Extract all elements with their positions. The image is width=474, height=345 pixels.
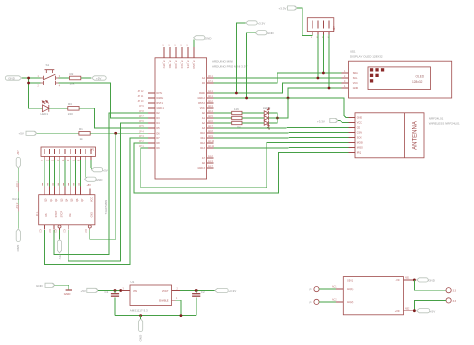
svg-text:VCC: VCC bbox=[353, 82, 358, 85]
resistor R4 bbox=[232, 107, 242, 115]
svg-text:JP2.1: JP2.1 bbox=[17, 181, 19, 188]
wire U1 ENABLE down to ground rail bbox=[176, 300, 181, 315]
svg-text:R1: R1 bbox=[79, 127, 83, 131]
arduino top pins bbox=[162, 45, 195, 69]
svg-text:A1.3: A1.3 bbox=[208, 160, 213, 163]
svg-text:GND.1: GND.1 bbox=[157, 107, 165, 110]
svg-text:JP 10: JP 10 bbox=[138, 101, 145, 103]
svg-text:A4.1: A4.1 bbox=[208, 90, 213, 93]
wire arduino D13 to nrf MISO bbox=[214, 147, 349, 150]
svg-text:A7.1: A7.1 bbox=[208, 80, 213, 83]
svg-text:GND: GND bbox=[96, 178, 104, 182]
wire ground rail bbox=[115, 315, 196, 317]
svg-text:WIRELESS NRF24L01: WIRELESS NRF24L01 bbox=[429, 121, 460, 125]
junction at (28.6,83) bbox=[27, 82, 30, 85]
IC1 74HC595 shift register bbox=[36, 183, 108, 233]
svg-text:RAW: RAW bbox=[199, 92, 205, 95]
wire arduino A4 to oled SDA bbox=[214, 73, 342, 83]
junction at (28.6,78) bbox=[27, 77, 30, 80]
svg-text:JP 3: JP 3 bbox=[139, 136, 144, 138]
svg-text:R6: R6 bbox=[237, 125, 241, 129]
svg-text:+5V: +5V bbox=[81, 289, 86, 293]
junction -VD bbox=[413, 279, 416, 282]
svg-text:A6.11: A6.11 bbox=[208, 145, 215, 148]
arduino left pin stubs bbox=[138, 91, 165, 150]
svg-text:DS: DS bbox=[45, 213, 48, 217]
svg-text:220: 220 bbox=[68, 112, 73, 116]
wire connector pin2 to SCL row bbox=[317, 35, 319, 78]
svg-text:U$3: U$3 bbox=[332, 26, 335, 31]
wire connector pin9 to GND flag bbox=[86, 160, 87, 179]
svg-text:IC 1: IC 1 bbox=[36, 211, 39, 216]
wire R3 to arduino D5 bbox=[79, 108, 148, 128]
svg-text:RST.2: RST.2 bbox=[198, 102, 205, 105]
wire IC1 OE to arduino bbox=[68, 123, 148, 261]
wire arduino A5 to oled SCL bbox=[214, 77, 342, 79]
svg-text:GND.3: GND.3 bbox=[197, 167, 205, 170]
wire U1 VOUT to +3.3V bbox=[180, 290, 215, 292]
svg-text:S1: S1 bbox=[46, 63, 50, 67]
pad P4 output bbox=[446, 298, 457, 303]
svg-text:P_GND: P_GND bbox=[192, 61, 195, 70]
svg-text:A6.10: A6.10 bbox=[208, 140, 215, 143]
junction led cathode rail bbox=[276, 117, 279, 120]
svg-text:N$1: N$1 bbox=[405, 278, 410, 280]
svg-text:JP 11: JP 11 bbox=[138, 96, 144, 98]
svg-text:74HC595N: 74HC595N bbox=[104, 200, 108, 215]
supply flag GND with ground bar (bottom-left) bbox=[36, 283, 72, 296]
LED LED1 bbox=[41, 101, 49, 117]
pin +VD stub bbox=[404, 308, 415, 310]
supply flag +5V (top-left) bbox=[92, 76, 107, 81]
svg-text:+5V: +5V bbox=[58, 254, 62, 259]
wire P2 to AC(2) bbox=[319, 299, 343, 302]
wire +5V branch down to IC1 pin bbox=[90, 133, 116, 239]
supply flag GND (below connector) bbox=[85, 177, 104, 182]
junction gnd flag at rail bbox=[139, 314, 142, 317]
supply flag +3.3V (top right) bbox=[279, 6, 298, 11]
wire +3.3V flag to nrf VCC bbox=[338, 121, 348, 123]
svg-text:CE: CE bbox=[357, 127, 361, 130]
module U$2 nrf24l01 wireless bbox=[348, 113, 460, 158]
svg-text:JP 12: JP 12 bbox=[138, 91, 145, 93]
svg-text:D11: D11 bbox=[201, 137, 206, 140]
svg-text:A6.6: A6.6 bbox=[208, 120, 213, 123]
arduino right pin stubs bbox=[197, 75, 214, 170]
svg-text:+5V: +5V bbox=[16, 150, 19, 155]
LED LED3 bbox=[264, 116, 269, 128]
svg-text:VOUT: VOUT bbox=[162, 290, 169, 293]
svg-text:RST.1: RST.1 bbox=[157, 102, 164, 105]
junction GND row left bbox=[245, 97, 248, 100]
supply flag +5V (R1 row) bbox=[19, 131, 37, 136]
wire +5V to R1 bbox=[37, 132, 79, 134]
wire arduino top pin to GND flag bbox=[193, 40, 195, 48]
wire connector pin4 to GND row bbox=[328, 35, 330, 88]
wire GND to switch S1 pin 1 bbox=[22, 77, 41, 79]
svg-text:JP 9: JP 9 bbox=[139, 106, 144, 108]
svg-text:P_DTR: P_DTR bbox=[162, 61, 165, 69]
wire IC1 SHCP to arduino bbox=[54, 113, 148, 255]
svg-text:1k: 1k bbox=[80, 137, 84, 141]
wire GND flag down to GND row bbox=[247, 33, 256, 98]
svg-text:A1.2: A1.2 bbox=[208, 155, 213, 158]
svg-text:A6.7: A6.7 bbox=[208, 125, 213, 128]
wire R2 to +5V flag bbox=[81, 77, 91, 79]
svg-text:C1: C1 bbox=[105, 290, 109, 294]
svg-text:GND: GND bbox=[357, 117, 363, 120]
svg-text:SCK: SCK bbox=[357, 137, 362, 140]
wire R4 to LED2 bbox=[242, 112, 264, 114]
svg-text:P: P bbox=[310, 288, 312, 292]
supply flag +5V (psu) bbox=[417, 309, 436, 314]
svg-text:+5V: +5V bbox=[96, 76, 101, 80]
svg-text:ARDUINO PRO MINI 3.3V: ARDUINO PRO MINI 3.3V bbox=[212, 64, 247, 68]
svg-text:128x32: 128x32 bbox=[412, 80, 423, 84]
svg-text:GND: GND bbox=[8, 76, 16, 80]
wires connector to IC1 top pins bbox=[44, 160, 80, 187]
svg-text:U$1: U$1 bbox=[350, 50, 356, 54]
wire LED2 out bbox=[269, 112, 278, 114]
wire LED4 out bbox=[269, 122, 278, 124]
svg-text:U1: U1 bbox=[131, 280, 135, 284]
pin -VD stub bbox=[404, 278, 415, 280]
wire +3.3V flag down to VCC row bbox=[236, 23, 245, 93]
capacitor C2 bbox=[192, 290, 205, 316]
resistor R5 bbox=[232, 116, 242, 119]
svg-text:OE: OE bbox=[69, 213, 72, 217]
wire GND to switch S1 pin 2 bbox=[29, 78, 41, 83]
display U$1 OLED 128x32 bbox=[341, 50, 451, 99]
svg-text:+3.3V: +3.3V bbox=[257, 21, 265, 25]
svg-text:STCP: STCP bbox=[61, 211, 64, 218]
svg-text:N$2: N$2 bbox=[405, 308, 410, 310]
resistor R3 bbox=[68, 102, 79, 116]
svg-text:P_RXD: P_RXD bbox=[174, 61, 177, 69]
svg-text:IC2.4: IC2.4 bbox=[12, 197, 20, 201]
svg-text:A6.5: A6.5 bbox=[208, 115, 213, 118]
svg-text:JP 4: JP 4 bbox=[139, 131, 144, 133]
wire IC1 STCP to supply flag bbox=[59, 230, 61, 240]
svg-text:+5V: +5V bbox=[102, 168, 107, 172]
svg-text:VCC: VCC bbox=[91, 197, 94, 202]
svg-text:D13: D13 bbox=[200, 147, 205, 150]
capacitor C1 bbox=[105, 290, 120, 316]
svg-text:+5V: +5V bbox=[430, 309, 435, 313]
wire GND row to oled GND bbox=[288, 88, 341, 98]
junction +3.3V at VCC row bbox=[235, 92, 238, 95]
junction R1 branch bbox=[114, 132, 117, 135]
svg-text:LED1: LED1 bbox=[41, 112, 49, 116]
wire connector pin10 to +5V flag bbox=[91, 160, 93, 170]
svg-text:ENABLE: ENABLE bbox=[159, 300, 169, 303]
svg-text:P_CTS: P_CTS bbox=[186, 61, 189, 69]
svg-text:116: 116 bbox=[234, 107, 239, 111]
svg-text:NRF24L01: NRF24L01 bbox=[429, 116, 444, 120]
svg-text:GND: GND bbox=[353, 87, 359, 90]
wire GND down to LED1 bbox=[29, 83, 43, 108]
pad P1 bbox=[310, 287, 320, 292]
wire +5V to U1 VIN bbox=[98, 290, 121, 292]
svg-text:GND: GND bbox=[428, 279, 436, 283]
wire arduino D9 to rail A to nrf MOSI bbox=[141, 143, 349, 188]
svg-text:JP1: JP1 bbox=[90, 148, 95, 151]
wire R1 to arduino D6 bbox=[90, 132, 148, 134]
resistor R6 bbox=[232, 121, 242, 129]
supply flag GND (above arduino) bbox=[194, 36, 213, 41]
svg-text:P_TXD: P_TXD bbox=[168, 61, 171, 69]
svg-text:CSN: CSN bbox=[357, 132, 362, 135]
svg-text:A6.8: A6.8 bbox=[208, 130, 213, 133]
wire arduino VCC to oled VCC bbox=[214, 83, 342, 93]
svg-text:GND: GND bbox=[36, 284, 44, 288]
wire arduino A2 to R6 bbox=[214, 122, 232, 124]
svg-text:R2: R2 bbox=[70, 72, 74, 76]
module PS1 power supply bbox=[343, 277, 403, 315]
pad P3 output bbox=[446, 288, 457, 293]
LED LED2 bbox=[263, 106, 271, 115]
wire LED1 to R3 bbox=[49, 107, 68, 109]
svg-text:+5V: +5V bbox=[87, 184, 92, 187]
svg-text:+3.3V: +3.3V bbox=[279, 7, 287, 11]
svg-text:IRQ: IRQ bbox=[357, 152, 361, 155]
wire +3.3V to connector SV1 pin1 bbox=[297, 8, 312, 35]
op-amp U2 arduino pro mini box bbox=[155, 58, 247, 179]
svg-text:GND: GND bbox=[16, 245, 20, 253]
wire R5 to LED3 bbox=[242, 117, 264, 119]
wire IC1 DS to arduino D2 bbox=[44, 138, 148, 265]
svg-text:JP2.2: JP2.2 bbox=[17, 202, 19, 209]
svg-text:GND: GND bbox=[138, 335, 142, 343]
wire arduino GND.2 row to nrf GND bbox=[214, 98, 349, 118]
svg-text:A6.2: A6.2 bbox=[208, 100, 213, 103]
svg-text:+3.3V: +3.3V bbox=[228, 289, 236, 293]
svg-text:GND: GND bbox=[205, 36, 213, 40]
svg-text:VIN: VIN bbox=[133, 290, 137, 293]
svg-text:VCC: VCC bbox=[200, 107, 205, 110]
svg-text:D10: D10 bbox=[200, 132, 205, 135]
svg-text:C2: C2 bbox=[201, 290, 205, 294]
svg-text:G5V1: G5V1 bbox=[347, 280, 354, 283]
wire arduino A1 to R5 bbox=[214, 117, 232, 119]
pad P2 bbox=[310, 299, 320, 304]
supply flag GND (top middle) bbox=[255, 31, 274, 36]
svg-text:SHCP: SHCP bbox=[55, 210, 58, 217]
wire GND branch down to led cathodes bbox=[277, 98, 288, 118]
svg-text:MOSI: MOSI bbox=[357, 142, 363, 145]
supply flag +3.3V (top middle) bbox=[246, 21, 266, 26]
wire LED3 out bbox=[269, 117, 278, 119]
svg-text:ARDUINO MINI: ARDUINO MINI bbox=[212, 59, 233, 63]
svg-text:OLED: OLED bbox=[416, 75, 425, 79]
wire S1 to R2 bbox=[59, 77, 70, 79]
svg-text:JP 7: JP 7 bbox=[139, 116, 144, 118]
junction C2 top bbox=[195, 289, 198, 292]
vertical supply wire with labels (far left) bbox=[12, 150, 20, 252]
junction GND row oled-led branch bbox=[287, 97, 290, 100]
svg-text:GND: GND bbox=[90, 212, 93, 218]
svg-text:-VD: -VD bbox=[395, 279, 399, 282]
svg-text:+VD: +VD bbox=[395, 310, 400, 313]
resistor R1 bbox=[79, 127, 90, 141]
svg-text:+3.3V: +3.3V bbox=[317, 119, 325, 123]
svg-text:ANTENNA: ANTENNA bbox=[412, 121, 418, 150]
wire +VD to output pad 4 bbox=[414, 300, 446, 310]
svg-text:DISPLAY OLED 128X32: DISPLAY OLED 128X32 bbox=[350, 55, 383, 59]
supply flag GND (psu) bbox=[417, 278, 436, 283]
svg-text:SCL: SCL bbox=[353, 77, 358, 80]
svg-text:A6.1: A6.1 bbox=[208, 95, 213, 98]
switch S1 bbox=[38, 63, 61, 88]
supply flag GND vertical (below U1) bbox=[138, 316, 142, 343]
junction +VD bbox=[413, 309, 416, 312]
junction C1 top bbox=[114, 289, 117, 292]
junction pin3 SDA bbox=[322, 72, 325, 75]
wire S1 pin4 to arduino D3 bbox=[59, 83, 149, 118]
junction enable at rail bbox=[180, 314, 183, 317]
svg-text:+5V: +5V bbox=[19, 132, 24, 136]
svg-text:A6.3: A6.3 bbox=[208, 105, 213, 108]
svg-text:P: P bbox=[310, 300, 312, 304]
supply flag +5V (regulator input) bbox=[81, 288, 99, 293]
svg-text:10k: 10k bbox=[70, 82, 75, 86]
svg-text:AC2: AC2 bbox=[332, 299, 337, 302]
svg-text:GND: GND bbox=[267, 31, 275, 35]
wire arduino A3 to nrf CE bbox=[214, 127, 349, 130]
svg-text:A6.4: A6.4 bbox=[208, 110, 213, 113]
wire arduino D11 to nrf SCK bbox=[214, 137, 349, 140]
wire arduino A0 to R4 bbox=[214, 112, 232, 114]
junction at VIN stub bbox=[119, 289, 122, 292]
voltage regulator U1 AMS1117-3.3 bbox=[122, 280, 181, 313]
svg-text:A5.1: A5.1 bbox=[208, 75, 213, 78]
svg-text:P_VCC: P_VCC bbox=[180, 61, 183, 69]
svg-text:GND: GND bbox=[64, 292, 72, 296]
supply flag GND (top-left) bbox=[5, 76, 22, 81]
svg-text:D0/Rx: D0/Rx bbox=[157, 97, 164, 100]
LED LED4 bbox=[264, 121, 269, 130]
svg-text:AC(2): AC(2) bbox=[347, 301, 353, 304]
svg-text:JP 6: JP 6 bbox=[139, 121, 144, 123]
svg-text:D12: D12 bbox=[200, 142, 205, 145]
svg-text:AMS1117-3.3: AMS1117-3.3 bbox=[130, 309, 148, 313]
svg-text:DI/Tx: DI/Tx bbox=[157, 92, 164, 95]
supply flag +3.3V (nrf vcc) bbox=[317, 118, 338, 123]
svg-text:A1.7: A1.7 bbox=[208, 165, 213, 168]
wire led cathode rail bbox=[276, 113, 278, 123]
junction pin2 SCL bbox=[317, 77, 320, 80]
wire connector pin3 to SDA row bbox=[322, 35, 324, 73]
svg-text:A6.9: A6.9 bbox=[208, 135, 213, 138]
wire P1 to AC(1) bbox=[319, 286, 343, 289]
resistor R2 bbox=[70, 72, 81, 86]
svg-text:SDA: SDA bbox=[353, 72, 358, 75]
svg-text:GND.2: GND.2 bbox=[197, 97, 205, 100]
svg-text:AC(1): AC(1) bbox=[347, 288, 353, 291]
svg-text:JP 8: JP 8 bbox=[139, 111, 144, 113]
connector JP1 7-segment display header bbox=[40, 147, 95, 162]
supply flag +5V (below connector) bbox=[91, 168, 107, 173]
wire arduino D10 to nrf CSN bbox=[214, 132, 349, 135]
wire -VD to output pad 3 bbox=[414, 280, 446, 290]
wire R6 to LED4 bbox=[242, 122, 264, 124]
svg-text:AC1: AC1 bbox=[332, 286, 337, 289]
supply flag vertical (below IC1) bbox=[57, 240, 61, 259]
svg-text:MISO: MISO bbox=[357, 147, 363, 150]
wire arduino D8 to rail B to nrf IRQ bbox=[134, 143, 348, 193]
connector SV1 oled header bbox=[307, 18, 335, 39]
svg-text:JP 5: JP 5 bbox=[139, 126, 144, 128]
junction pin4 GND bbox=[328, 87, 331, 90]
svg-text:VCC: VCC bbox=[357, 122, 362, 125]
supply flag +3.3V (regulator output) bbox=[215, 288, 236, 293]
svg-text:R3: R3 bbox=[68, 102, 72, 106]
